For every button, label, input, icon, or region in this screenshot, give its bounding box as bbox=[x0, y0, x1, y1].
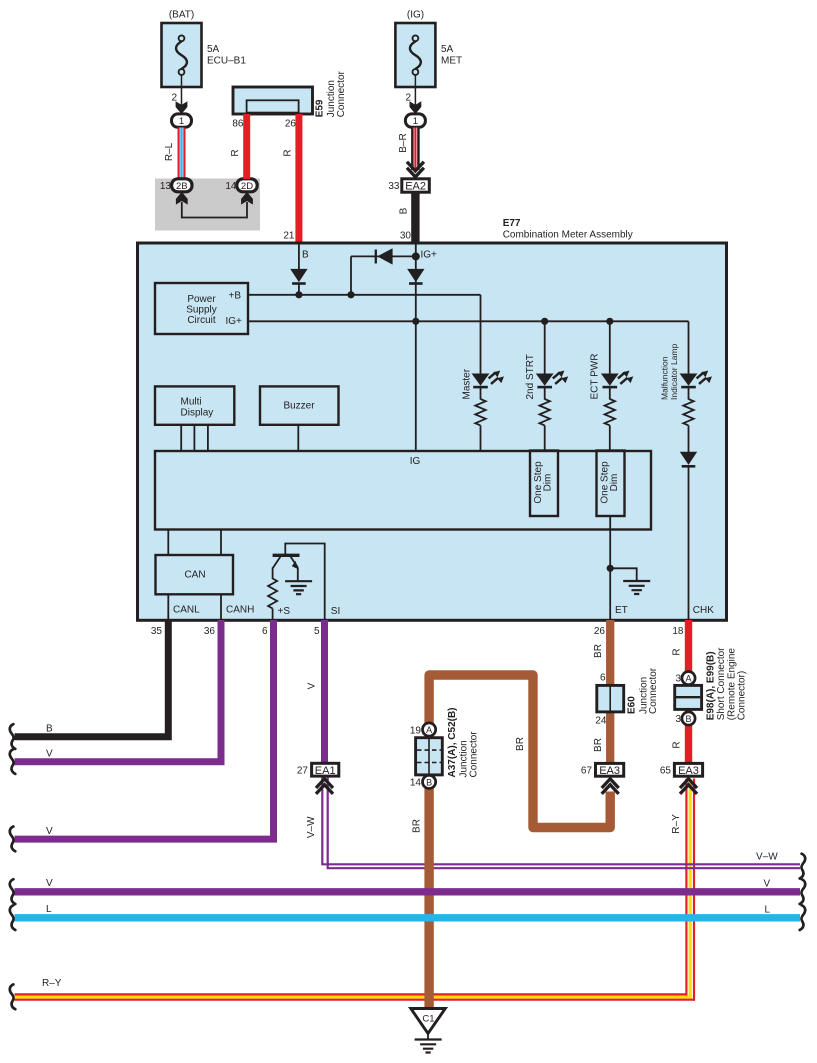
resistor MIL bbox=[683, 399, 693, 452]
wire V from pin 6 bbox=[15, 620, 274, 839]
svg-text:Supply: Supply bbox=[186, 305, 217, 316]
svg-text:V: V bbox=[764, 879, 771, 890]
wire R from pin 18 to short connector bbox=[672, 620, 689, 763]
wire ECT PWR branch bbox=[609, 321, 611, 374]
svg-text:CANH: CANH bbox=[226, 605, 254, 616]
resistor Master bbox=[475, 399, 485, 450]
connector circle A (A37) bbox=[410, 723, 436, 736]
squiggle V right bbox=[800, 879, 806, 904]
wire V from pin 5 to EA1 bbox=[306, 620, 324, 763]
svg-text:13: 13 bbox=[160, 181, 172, 192]
wires multi display to bus bbox=[181, 425, 208, 451]
gray harness box bbox=[155, 179, 260, 231]
squiggle V left bbox=[10, 879, 16, 904]
svg-text:R–Y: R–Y bbox=[671, 814, 682, 834]
wire IG+ line bbox=[248, 320, 689, 322]
diode D2 to +B bbox=[351, 248, 416, 295]
wire BR from E60 to EA3 bbox=[593, 716, 607, 752]
node dot IG vertical bbox=[412, 318, 419, 325]
wire +B down to Master LED bbox=[480, 295, 482, 374]
squiggle L right bbox=[800, 905, 806, 930]
svg-text:Multi: Multi bbox=[181, 397, 202, 408]
svg-text:19: 19 bbox=[410, 725, 422, 736]
svg-text:+B: +B bbox=[229, 291, 242, 302]
svg-text:CAN: CAN bbox=[184, 570, 205, 581]
LED ECT PWR bbox=[589, 354, 633, 400]
power supply circuit box bbox=[155, 283, 248, 334]
fuse MET (IG) bbox=[395, 10, 462, 88]
svg-text:Indicator Lamp: Indicator Lamp bbox=[669, 344, 679, 400]
svg-text:L: L bbox=[46, 904, 52, 915]
svg-text:+S: +S bbox=[278, 606, 291, 617]
arrow into EA2 bbox=[407, 162, 424, 177]
svg-text:B: B bbox=[46, 724, 53, 735]
svg-text:B–R: B–R bbox=[398, 133, 409, 152]
wire 2nd STRT branch bbox=[544, 321, 546, 374]
svg-text:CHK: CHK bbox=[693, 605, 714, 616]
buzzer box bbox=[260, 386, 339, 424]
svg-text:R–Y: R–Y bbox=[42, 978, 62, 989]
wire bus to CAN left bbox=[167, 530, 169, 556]
svg-text:Connector): Connector) bbox=[737, 671, 748, 720]
arrow out of EA1 bbox=[316, 779, 333, 794]
resistor ECT PWR bbox=[605, 399, 615, 451]
svg-text:1: 1 bbox=[413, 116, 418, 127]
svg-text:Dim: Dim bbox=[543, 474, 554, 492]
ground transistor bbox=[285, 581, 312, 594]
wire loop 2B to 2D bbox=[182, 202, 247, 218]
svg-text:L: L bbox=[765, 905, 771, 916]
svg-text:EA3: EA3 bbox=[678, 765, 699, 777]
wire +B line bbox=[248, 294, 481, 296]
svg-text:IG+: IG+ bbox=[421, 250, 438, 261]
wire V-W bbox=[306, 778, 800, 869]
svg-text:R: R bbox=[672, 648, 683, 655]
wire R from E99 to EA3 65 bbox=[672, 741, 683, 748]
wire bus to CAN right bbox=[220, 530, 222, 556]
connector oval 2B bbox=[160, 179, 192, 192]
svg-text:C1: C1 bbox=[422, 1014, 434, 1025]
svg-text:CANL: CANL bbox=[173, 605, 200, 616]
diode D4 MIL bbox=[680, 452, 697, 467]
svg-text:5A: 5A bbox=[441, 44, 454, 55]
wire B to pin 30 bbox=[399, 192, 416, 242]
wire ET from one step dim 2 bbox=[609, 516, 611, 619]
junction connector E60 bbox=[597, 667, 659, 714]
svg-text:SI: SI bbox=[331, 606, 340, 617]
wire R from E59 pin 86 to 2D bbox=[230, 114, 247, 179]
svg-text:ET: ET bbox=[615, 605, 628, 616]
junction connector A37(A) C52(B) bbox=[416, 707, 480, 777]
svg-text:A37(A), C52(B): A37(A), C52(B) bbox=[447, 707, 458, 777]
wire R-L bbox=[164, 128, 182, 180]
node dot D2/+B bbox=[347, 291, 354, 298]
svg-text:21: 21 bbox=[283, 231, 295, 242]
pin numbers below box bbox=[151, 626, 684, 637]
svg-text:Short Connector: Short Connector bbox=[716, 647, 727, 720]
svg-text:35: 35 bbox=[151, 626, 163, 637]
svg-text:Connector: Connector bbox=[469, 731, 480, 778]
svg-text:V: V bbox=[46, 878, 53, 889]
squiggle L left bbox=[10, 905, 16, 930]
label E77 bbox=[503, 218, 633, 241]
CAN box bbox=[156, 555, 234, 594]
svg-text:R–L: R–L bbox=[164, 142, 175, 161]
pin labels bottom bbox=[173, 605, 714, 618]
combination meter assembly box E77 bbox=[138, 243, 727, 620]
diode D1 bbox=[290, 269, 307, 284]
node dot ET bbox=[607, 565, 614, 572]
node dot 2nd STRT bbox=[541, 318, 548, 325]
svg-text:26: 26 bbox=[285, 119, 297, 130]
svg-text:IG: IG bbox=[410, 456, 421, 467]
svg-text:Display: Display bbox=[181, 408, 214, 419]
wire SI internal bbox=[285, 544, 324, 620]
svg-text:6: 6 bbox=[600, 673, 606, 684]
wire B-R bbox=[398, 128, 415, 171]
svg-text:E59: E59 bbox=[315, 99, 326, 117]
svg-text:EA2: EA2 bbox=[405, 181, 426, 193]
connector circle A (E98) bbox=[675, 672, 695, 685]
connector circle B (C52) bbox=[410, 775, 436, 788]
wire MIL branch bbox=[688, 321, 690, 374]
svg-text:Circuit: Circuit bbox=[187, 315, 216, 326]
svg-text:5A: 5A bbox=[207, 44, 220, 55]
wire BR trunk EA3 to A37 bbox=[429, 675, 610, 828]
multi display box bbox=[155, 386, 234, 424]
wire B from pin 35 bbox=[15, 620, 169, 737]
svg-text:E77: E77 bbox=[503, 218, 521, 229]
svg-text:Dim: Dim bbox=[609, 474, 620, 492]
svg-text:2nd STRT: 2nd STRT bbox=[525, 354, 536, 399]
wire V from pin 36 bbox=[15, 620, 222, 762]
svg-text:A: A bbox=[685, 674, 691, 684]
arrow out of EA3 65 bbox=[680, 779, 697, 794]
svg-text:3: 3 bbox=[675, 674, 681, 685]
svg-text:2: 2 bbox=[405, 93, 411, 104]
svg-text:6: 6 bbox=[262, 626, 268, 637]
ground C1 bbox=[411, 1009, 446, 1053]
squiggle V +S bbox=[10, 827, 16, 852]
svg-text:3: 3 bbox=[675, 714, 681, 725]
svg-text:(IG): (IG) bbox=[407, 10, 424, 21]
one step dim box 2 bbox=[597, 451, 625, 517]
svg-text:R: R bbox=[283, 149, 294, 156]
squiggle B bbox=[10, 724, 16, 749]
svg-text:R: R bbox=[230, 149, 241, 156]
connector EA2 pin 33 bbox=[388, 179, 429, 193]
LED Master bbox=[462, 368, 504, 399]
arrow into 2B bbox=[176, 192, 188, 205]
wire fuse BAT pin 2 bbox=[171, 75, 187, 114]
svg-text:67: 67 bbox=[581, 766, 593, 777]
wire to ET ground bbox=[610, 568, 637, 581]
transistor Q1 bbox=[273, 543, 300, 582]
wire B entry to diode bbox=[298, 243, 300, 269]
wire diode D1 to +B line bbox=[298, 284, 300, 295]
node dot ECT PWR bbox=[606, 318, 613, 325]
wire buzzer to bus bbox=[297, 425, 299, 451]
svg-text:65: 65 bbox=[660, 766, 672, 777]
svg-text:V: V bbox=[306, 682, 317, 689]
connector circle B (E99) bbox=[675, 712, 695, 725]
svg-text:B: B bbox=[685, 714, 691, 724]
svg-text:Connector: Connector bbox=[648, 667, 659, 714]
svg-text:18: 18 bbox=[672, 626, 684, 637]
LED 2nd STRT bbox=[525, 354, 568, 399]
wire IG+ entry down to bus IG bbox=[415, 243, 417, 450]
fuse ECU-B1 (BAT) bbox=[162, 10, 247, 88]
squiggle V CANH bbox=[10, 749, 16, 774]
svg-text:EA3: EA3 bbox=[599, 765, 620, 777]
svg-text:2: 2 bbox=[171, 93, 177, 104]
resistor +S bbox=[268, 579, 277, 620]
node dot B/+B bbox=[295, 291, 302, 298]
svg-text:Combination Meter Assembly: Combination Meter Assembly bbox=[503, 230, 633, 241]
svg-text:Master: Master bbox=[462, 368, 473, 399]
ground ET bbox=[623, 581, 650, 594]
connector EA3 pin 67 bbox=[581, 763, 624, 777]
svg-text:2D: 2D bbox=[241, 181, 253, 192]
svg-text:86: 86 bbox=[232, 119, 244, 130]
junction connector E59 bbox=[233, 70, 347, 117]
connector oval 2D bbox=[225, 179, 257, 192]
svg-text:E98(A), E99(B): E98(A), E99(B) bbox=[706, 651, 717, 720]
svg-text:27: 27 bbox=[297, 766, 309, 777]
svg-text:14: 14 bbox=[410, 778, 422, 789]
wire R from E59 pin 26 to pin 21 bbox=[283, 114, 299, 242]
svg-text:R: R bbox=[672, 741, 683, 748]
diode D3 bbox=[407, 269, 424, 284]
wire CAN to CANH pin bbox=[220, 594, 222, 619]
svg-text:Buzzer: Buzzer bbox=[283, 401, 315, 412]
svg-text:V–W: V–W bbox=[306, 816, 317, 838]
svg-text:24: 24 bbox=[595, 716, 607, 727]
svg-text:A: A bbox=[426, 725, 432, 735]
svg-text:B: B bbox=[302, 250, 309, 261]
svg-text:B: B bbox=[399, 207, 410, 214]
wire BR through A37 to ground C1 bbox=[424, 724, 433, 1009]
svg-text:ECU–B1: ECU–B1 bbox=[207, 56, 246, 67]
svg-text:MET: MET bbox=[441, 56, 462, 67]
svg-text:E60: E60 bbox=[626, 696, 637, 714]
node dot IG+ bbox=[412, 252, 420, 260]
svg-text:26: 26 bbox=[594, 626, 606, 637]
svg-text:36: 36 bbox=[204, 626, 216, 637]
arrow out of EA3 67 bbox=[602, 779, 619, 794]
svg-text:(BAT): (BAT) bbox=[169, 10, 194, 21]
svg-text:BR: BR bbox=[593, 644, 604, 658]
svg-text:BR: BR bbox=[515, 737, 526, 751]
internal bus box bbox=[155, 451, 651, 530]
resistor 2nd STRT bbox=[540, 399, 550, 450]
svg-text:EA1: EA1 bbox=[315, 765, 336, 777]
svg-text:5: 5 bbox=[314, 626, 320, 637]
svg-text:1: 1 bbox=[179, 116, 184, 127]
svg-text:B: B bbox=[426, 777, 432, 787]
wire fuse IG pin 2 bbox=[405, 75, 421, 114]
svg-text:V–W: V–W bbox=[756, 852, 778, 863]
svg-text:ECT PWR: ECT PWR bbox=[589, 354, 600, 400]
svg-text:14: 14 bbox=[225, 181, 237, 192]
squiggle V-W right bbox=[800, 854, 806, 879]
svg-text:IG+: IG+ bbox=[226, 316, 243, 327]
squiggle R-Y left bbox=[10, 984, 16, 1009]
wire R-Y horizontal bbox=[15, 978, 695, 1000]
svg-text:BR: BR bbox=[412, 819, 423, 833]
wire BR from pin 26 to E60 bbox=[593, 620, 610, 763]
wire CAN to CANL pin bbox=[167, 594, 169, 619]
connector oval 1 (IG) bbox=[405, 114, 425, 127]
wire R-Y vertical from EA3 65 bbox=[671, 779, 694, 1001]
arrow into 2D bbox=[241, 192, 253, 205]
svg-text:V: V bbox=[46, 826, 53, 837]
wire V horizontal bbox=[15, 878, 801, 892]
svg-text:V: V bbox=[46, 749, 53, 760]
svg-text:Power: Power bbox=[187, 294, 216, 305]
connector EA3 pin 65 bbox=[660, 763, 703, 777]
svg-text:30: 30 bbox=[400, 231, 412, 242]
connector EA1 pin 27 bbox=[297, 763, 339, 777]
svg-text:Malfunction: Malfunction bbox=[659, 356, 669, 400]
wire MIL to CHK bbox=[688, 466, 690, 620]
svg-text:33: 33 bbox=[388, 181, 400, 192]
LED Malfunction Indicator Lamp bbox=[659, 344, 712, 400]
svg-text:2B: 2B bbox=[176, 181, 188, 192]
connector oval 1 (BAT) bbox=[172, 114, 192, 127]
svg-text:Connector: Connector bbox=[336, 70, 347, 117]
one step dim box 1 bbox=[530, 451, 558, 517]
svg-text:BR: BR bbox=[593, 738, 604, 752]
short connector E98(A) E99(B) bbox=[675, 647, 748, 720]
wire L horizontal bbox=[15, 904, 801, 918]
